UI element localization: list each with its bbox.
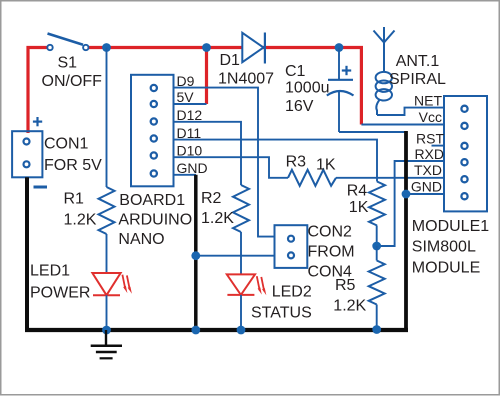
svg-text:LED1: LED1 [30, 263, 70, 280]
label R2 1.2K [201, 190, 234, 227]
capacitor C1 [327, 48, 354, 133]
switch S1 [47, 34, 88, 51]
node: junction dot R1 branch [102, 43, 111, 52]
resistor R3 [288, 170, 336, 186]
svg-text:1.2K: 1.2K [333, 298, 366, 315]
node: bus dot LED1 [102, 326, 111, 335]
wire: Vcc line to module [361, 124, 444, 126]
svg-text:CON4: CON4 [308, 264, 353, 281]
label R3 1K [286, 154, 336, 174]
wire: R1 branch from bus down [106, 48, 108, 188]
svg-text:CON1: CON1 [44, 136, 89, 153]
svg-text:POWER: POWER [30, 285, 90, 302]
svg-text:ARDUINO: ARDUINO [118, 212, 192, 229]
svg-text:FOR 5V: FOR 5V [44, 157, 102, 174]
svg-text:LED2: LED2 [272, 284, 312, 301]
svg-text:1.2K: 1.2K [64, 212, 97, 229]
diode D1 [242, 33, 265, 64]
wire: coil to NET pin [377, 108, 444, 115]
wire: red bus from switch S1 right terminal to right corner, down to Vcc level [89, 48, 361, 125]
label MODULE1 SIM800L MODULE [412, 218, 489, 277]
svg-text:16V: 16V [285, 98, 314, 115]
wire: black ground drop right side [404, 131, 408, 330]
wire: ground bus [25, 328, 408, 332]
svg-text:SIM800L: SIM800L [412, 239, 476, 256]
ground symbol [91, 330, 122, 358]
wire: C1 negative to black ground drop [339, 131, 406, 133]
wire: RXD to divider node [377, 161, 444, 246]
svg-text:D9: D9 [177, 73, 195, 89]
svg-text:RST: RST [416, 131, 444, 147]
svg-text:R3: R3 [286, 154, 307, 171]
svg-text:Vcc: Vcc [419, 109, 442, 125]
label D1 1N4007 [218, 52, 274, 88]
wire: TXD line from R3 to module [336, 177, 444, 179]
label BOARD1 ARDUINO NANO [118, 192, 192, 248]
wire: D12 to R2 [174, 122, 242, 185]
wire: module GND pin to black drop [406, 193, 444, 195]
svg-text:1K: 1K [316, 157, 336, 174]
plus mark CON1 [33, 117, 42, 126]
svg-text:STATUS: STATUS [251, 305, 312, 322]
svg-text:1000u: 1000u [285, 80, 330, 97]
connector CON1 [12, 131, 42, 177]
node: bus dot Arduino GND [191, 326, 200, 335]
label LED1 POWER [30, 263, 90, 302]
svg-text:R2: R2 [201, 190, 222, 207]
wire: R2 to LED2 [240, 232, 242, 275]
svg-text:5V: 5V [177, 89, 195, 105]
wire: +5V red bus left corner and left vertical into CON1 [28, 48, 47, 134]
svg-text:D1: D1 [220, 52, 241, 69]
wire: D10 to R3 left [174, 157, 289, 178]
svg-text:MODULE1: MODULE1 [412, 218, 489, 235]
svg-text:D10: D10 [177, 142, 203, 158]
node: junction dot C1 branch [335, 43, 344, 52]
label CON1 FOR 5V [44, 136, 102, 175]
svg-text:FROM: FROM [308, 244, 355, 261]
board BOARD1 Arduino Nano box [131, 75, 174, 187]
svg-text:ON/OFF: ON/OFF [42, 73, 103, 90]
label CON2 FROM CON4 [308, 224, 355, 281]
node: bus dot LED2 [237, 326, 246, 335]
LED2 [227, 274, 266, 295]
wire: R1 to LED1 [106, 234, 108, 273]
wire: GND pin stub [174, 174, 197, 176]
label R5 1.2K [333, 277, 366, 315]
svg-text:C1: C1 [285, 63, 306, 80]
svg-text:R4: R4 [347, 183, 368, 200]
wire: D11 to R4 top [174, 140, 378, 182]
connector CON2 [275, 225, 308, 268]
module MODULE1 SIM800L box [444, 96, 487, 211]
wire: LED1 to ground bus [106, 295, 108, 330]
node: module GND junction dot [402, 190, 411, 199]
svg-text:CON2: CON2 [308, 224, 353, 241]
svg-text:BOARD1: BOARD1 [119, 192, 185, 209]
node: junction dot on GND wire [191, 251, 200, 260]
wire: R5 to ground bus [376, 305, 378, 331]
wire: LED2 to ground bus [240, 295, 242, 330]
wire: CON1 minus to ground bus (black) [25, 177, 29, 330]
svg-text:GND: GND [177, 160, 208, 176]
svg-text:1K: 1K [349, 199, 369, 216]
label R4 1K [347, 183, 369, 217]
svg-text:NANO: NANO [118, 231, 164, 248]
svg-text:ANT.1: ANT.1 [396, 53, 440, 70]
wire: Arduino GND to bus (black) [194, 175, 198, 330]
wire: R4 to node X [376, 226, 378, 247]
resistor R4 [369, 182, 385, 226]
resistor R5 [369, 261, 385, 305]
node: junction dot 5V branch [202, 43, 211, 52]
wire: 5V pin line [174, 103, 207, 105]
svg-text:GND: GND [411, 179, 442, 195]
svg-text:SPIRAL: SPIRAL [389, 71, 446, 88]
wire: RST stub [432, 145, 445, 147]
svg-text:S1: S1 [58, 55, 78, 72]
svg-text:MODULE: MODULE [412, 260, 480, 277]
svg-text:R1: R1 [64, 191, 85, 208]
antenna ANT.1 [374, 27, 395, 72]
node: bus dot R5 [372, 325, 381, 334]
svg-text:NET: NET [414, 93, 442, 109]
coil spiral of ANT.1 [376, 72, 392, 115]
label ANT.1 SPIRAL [389, 53, 446, 88]
svg-text:TXD: TXD [414, 162, 442, 178]
svg-text:D11: D11 [177, 125, 202, 141]
wire: red drop to Arduino 5V pin [205, 48, 208, 105]
svg-text:1N4007: 1N4007 [218, 71, 274, 88]
resistor R1 [99, 187, 115, 234]
svg-text:D12: D12 [177, 107, 203, 123]
svg-text:1.2K: 1.2K [201, 210, 234, 227]
label LED2 STATUS [251, 284, 312, 322]
label C1 1000u 16V [285, 63, 330, 115]
wire: node X to R5 [376, 246, 378, 261]
LED1 [92, 273, 131, 295]
wire: D9 to CON2 pin1 [174, 88, 275, 237]
wire: ground to CON2 pin2 [196, 255, 275, 257]
svg-text:RXD: RXD [414, 146, 444, 162]
label R1 1.2K [64, 191, 97, 229]
minus mark CON1 [34, 186, 48, 189]
label S1 ON/OFF [42, 55, 103, 91]
resistor R2 [233, 185, 249, 232]
node: divider junction dot [372, 242, 381, 251]
